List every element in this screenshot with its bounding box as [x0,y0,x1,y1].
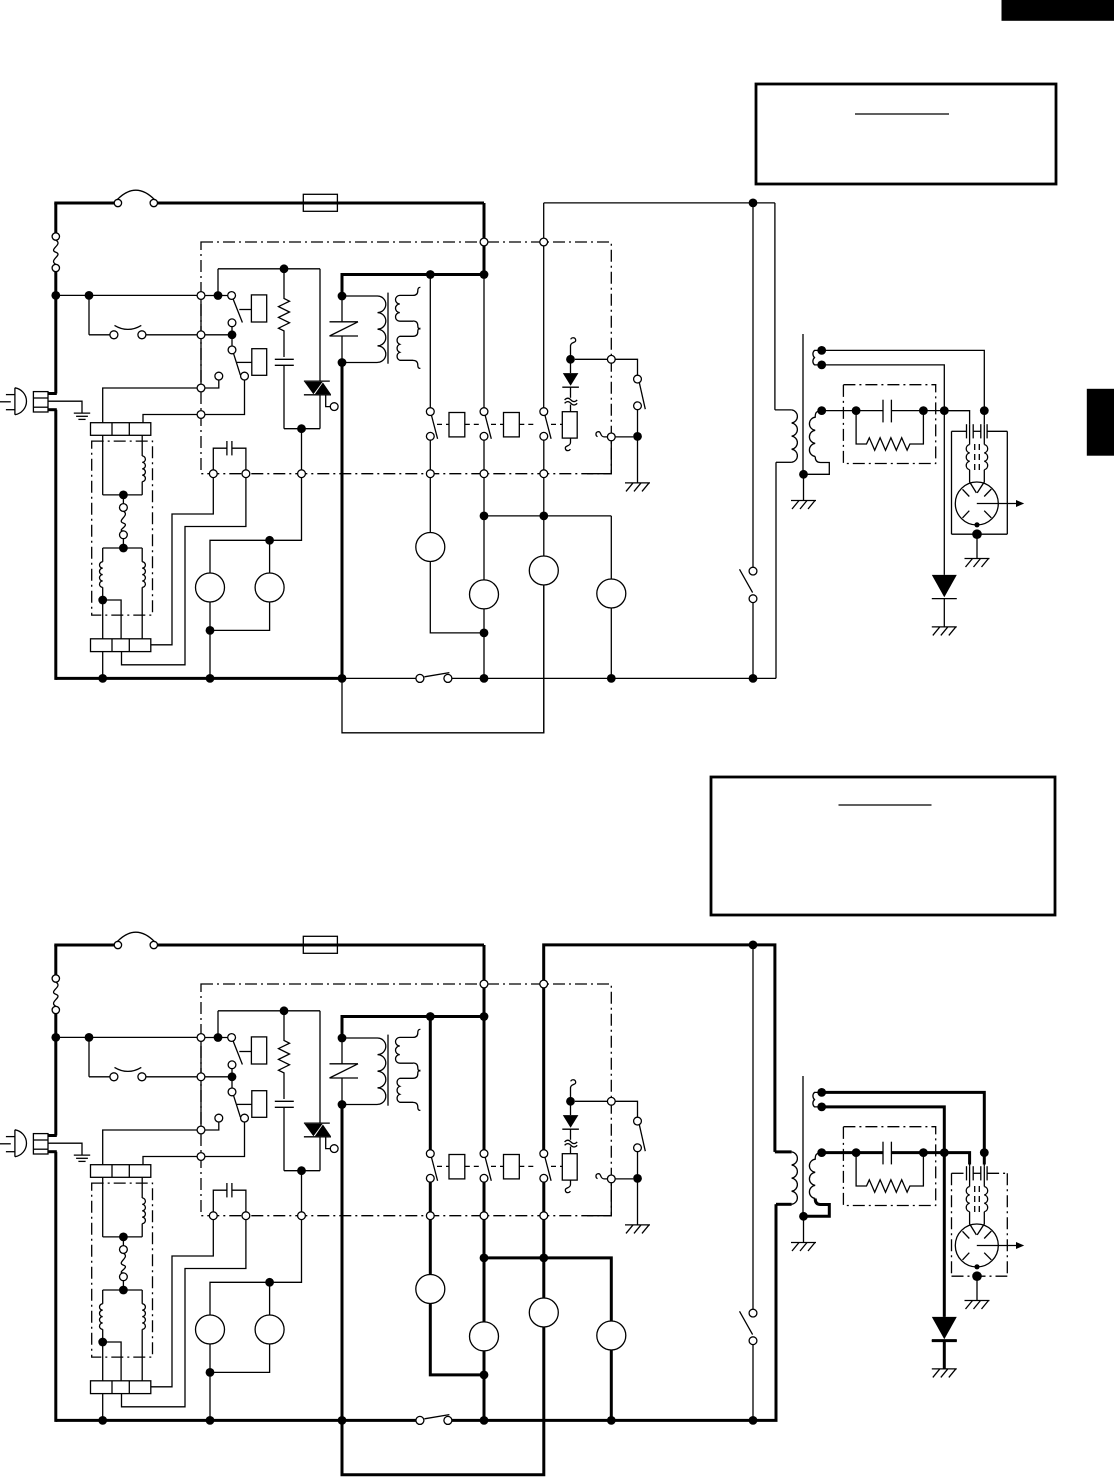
wire triac out [319,395,321,429]
resistor box R2 (schematic 2) [570,1147,572,1154]
wire buzzer switch down (schematic 2) [637,1152,639,1179]
bold column 1 (schematic 2) [429,1017,432,1150]
ground diode [932,626,957,628]
wire LVT primary bottom lead [342,362,378,364]
wire col2 to motor 2 [483,478,485,580]
relay contact S1 (schematic 2) [426,1150,434,1158]
node relay bus 1 [426,270,435,279]
HV capacitor C2 [882,400,884,423]
wire col3 corner [543,203,545,238]
magnetron output arrow (schematic 2) [977,1245,1017,1247]
relay coil box RYA (schematic 2) [449,1155,465,1179]
triac gate [326,395,331,407]
wire lamp bottoms [209,602,211,630]
wire block to neutral rail (schematic 2) [102,1394,104,1421]
wire plug to live rail (schematic 2) [48,1134,57,1137]
node branch (schematic 2) [85,1033,94,1042]
HVT primary top elbow [775,409,792,411]
node magnetron right lead [980,406,989,415]
wire magnetron ground (schematic 2) [976,1276,978,1300]
relay RY2 contact NO [241,372,249,380]
node motor bus 3 (schematic 2) [539,1254,548,1263]
control pin LED (schematic 2) [607,1097,615,1105]
relay coil box RYA [449,413,465,437]
capacitor C1 (schematic 2) [275,1100,294,1102]
loop wire below (schematic 2) [342,1327,544,1475]
node filament 1 [817,346,826,355]
control pin thermal [197,331,205,339]
wire to magnetron left (schematic 2) [944,1153,969,1167]
membrane key capacitor [213,448,227,470]
wire filter to control pin 2 (schematic 2) [143,1157,205,1165]
node lamp 2 tap (schematic 2) [265,1278,274,1287]
thermal cutout TCO (schematic 2) [52,975,59,982]
terminal block lower (schematic 2) [91,1381,151,1394]
magnetron filament feedthrough [966,424,968,438]
HV diode D2 (schematic 2) [932,1317,957,1339]
buzzer hook (schematic 2) [596,1174,607,1179]
rail segment right (schematic 2) [452,1419,776,1421]
wire to triac (schematic 2) [319,1011,321,1123]
LED D1 (schematic 2) [570,1101,572,1115]
chassis ground plug (schematic 2) [74,1154,90,1156]
wire relay contact S1 lower (schematic 2) [429,1182,431,1212]
bold loop (schematic 2) [342,1327,544,1475]
filter link lower (schematic 2) [122,1281,124,1290]
wire buzzer switch down [637,410,639,437]
control pin lamp [298,470,306,478]
magnetron output arrow [977,503,1017,505]
control pin feed [480,238,488,246]
thermal fuse Z [341,296,343,322]
rail segment to monitor switch (schematic 2) [342,1419,416,1421]
HV capacitor boundary (dash-dot) [843,385,935,464]
control pin key A [209,470,217,478]
triac gate (schematic 2) [326,1137,331,1149]
control box left edge solid segments (schematic 2) [200,1041,202,1073]
terminal block upper (schematic 2) [91,1165,151,1178]
wire lamp feed (schematic 2) [210,1220,302,1315]
LVT secondary 1 (schematic 2) [396,1037,414,1063]
wire HV feed top [544,202,775,204]
relay RY1 blade (schematic 2) [233,1041,242,1064]
node lamp 2 tap [265,536,274,545]
oven lamp L2 [255,573,284,602]
relay RY1 blade [233,299,242,322]
node LVT primary top (schematic 2) [338,1034,347,1043]
node motor bus 3 [539,512,548,521]
bold HV line (schematic 2) [822,1151,883,1154]
filter break contacts (schematic 2) [120,1246,128,1254]
filter choke coil 3 [141,548,143,562]
bold diode bar and ground stub (schematic 2) [932,1339,957,1342]
wire motor 2 out [483,609,485,679]
LVT secondary 2 [397,336,413,360]
LVT core (schematic 2) [387,1035,389,1106]
bleed resistor R3 [856,411,923,451]
HVT secondary bottom elbow (schematic 2) [804,1199,830,1217]
wire to triac [319,269,321,381]
turntable motor TTM [470,580,499,609]
magnetron anode vanes (schematic 2) [963,1231,970,1238]
triac Q1 [304,380,330,382]
ground magnetron [965,558,990,560]
node filter mid 1 (schematic 2) [119,1233,128,1242]
magnetron case box [952,430,967,432]
wire HV line right (schematic 2) [891,1152,969,1154]
wire filament line 2 (schematic 2) [822,1107,945,1153]
node HV switch tap [749,199,758,208]
node B (schematic 2) [228,1072,237,1081]
wire filter to control pin 2 [143,415,205,423]
filter link upper (schematic 2) [122,1237,124,1246]
node HV line [817,406,826,415]
wire control input A [205,295,228,297]
wire filament line 1 (schematic 2) [822,1092,985,1152]
node cap right [919,406,928,415]
wire filament line 2 [822,365,945,411]
wire left rail upper [54,203,57,233]
relay RY1 contact NO (schematic 2) [228,1061,236,1069]
filter break contacts [120,504,128,512]
filter upper left lead (schematic 2) [102,1177,104,1237]
filter upper bottom wire [103,494,143,496]
wire NC to pin (schematic 2) [205,1122,219,1130]
filter choke coil 3 (schematic 2) [141,1290,143,1304]
node lamp return [206,626,215,635]
wire control line A (schematic 2) [151,1220,214,1387]
note box 1 underline [855,113,949,115]
node HVT ground (schematic 2) [799,1212,808,1221]
control pin col2 [480,470,488,478]
fuse holder box (schematic 2) [303,936,337,953]
ground magnetron (schematic 2) [965,1300,990,1302]
relay RY1 contact NO [228,319,236,327]
wire col3 corner (schematic 2) [543,945,545,980]
wire HVT primary feed (schematic 2) [774,945,776,1152]
wire triac bottom bus [284,428,320,430]
magnetron filament leads (schematic 2) [969,1166,971,1186]
wire lamp feed down (schematic 2) [301,1171,303,1212]
node LVT primary bottom [338,358,347,367]
node filter mid 1 [119,491,128,500]
monitor switch (schematic 2) [416,1416,424,1424]
node HV diode junction [940,406,949,415]
filter choke coil 1 [141,435,143,456]
wire col1 to motor 1 (schematic 2) [429,1220,431,1275]
wire LVT bottom to neutral rail (schematic 2) [341,1105,344,1422]
control pin HV feed (schematic 2) [540,980,548,988]
node buzzer [633,432,642,441]
wire filament line 1 [822,350,985,410]
node filament 2 [817,361,826,370]
wire power relay column 1 upper [429,275,431,408]
wire control line A [151,478,214,645]
wire LVT primary top lead [342,295,378,297]
wire LVT primary bottom lead (schematic 2) [342,1104,378,1106]
node LED [566,355,575,364]
wire HVT primary return [775,462,777,678]
control pin filter 2 (schematic 2) [197,1153,205,1161]
wire NO to pin (schematic 2) [205,1122,245,1157]
wire HVT ground [803,474,805,500]
filter link upper [122,495,124,504]
node lamp feed (schematic 2) [297,1166,306,1175]
LED branch bottom hook (schematic 2) [565,1180,570,1193]
monitor switch [416,674,424,682]
relay contact S3 [540,408,548,416]
control pin live (schematic 2) [197,1034,205,1042]
control pin col3 [540,470,548,478]
wire control input B [205,334,228,336]
wire col2 to motor 2 (schematic 2) [483,1220,485,1322]
control pin live [197,292,205,300]
wire lamp 2 top (schematic 2) [269,1282,271,1315]
relay RY2 contact NO (schematic 2) [241,1114,249,1122]
wire C1 down [283,365,285,428]
note box 2 underline [839,804,932,806]
node HVT ground [799,470,808,479]
node filter out [98,596,107,605]
ground HVT [791,500,816,502]
wire top feed left (schematic 2) [54,944,114,947]
node rail HV switch [749,674,758,683]
relay RY2 coil box [252,349,267,376]
relay contact RY1 common (schematic 2) [228,1034,236,1042]
node LED (schematic 2) [566,1097,575,1106]
HVT core [802,334,804,477]
magnetron filament chokes (schematic 2) [966,1187,969,1212]
magnetron filament chokes [966,445,969,470]
noise filter boundary (dash-dot) (schematic 2) [92,1183,153,1357]
HV relay switch [749,567,757,575]
relay contact S1 [426,408,434,416]
wire lamp 2 top [269,540,271,573]
node A (schematic 2) [214,1033,223,1042]
node relay bus 2 [480,270,489,279]
fuse F1 (schematic 2) [114,941,121,948]
LED branch bottom hook [565,438,570,451]
wire left rail mid (schematic 2) [54,1014,57,1136]
wire live to control (schematic 2) [56,1036,197,1038]
wire HV switch lower [752,603,754,679]
schematic 2 (cooking condition) [0,932,1024,1475]
magnetron cathode leads [970,470,977,493]
HVT secondary winding [809,411,821,457]
LVT secondary 1 [395,295,413,321]
wire down to control unit pin [483,203,486,238]
wire magnetron right lead [983,411,985,425]
wire motor 1 out [430,562,484,633]
wire HVT primary feed [774,203,776,410]
chassis ground plug [74,412,90,414]
relay RY2 contact NC (schematic 2) [215,1114,223,1122]
HVT primary bottom elbow [776,461,792,463]
LED branch top hook [571,338,576,356]
wire control pin to relay bus (schematic 2) [342,988,484,1038]
wire HV line right [891,410,969,412]
wire buzzer to ground [637,436,639,483]
HVT primary winding [792,410,798,462]
fuse holder box [303,194,337,211]
wire top bus to triac [218,268,320,270]
filter choke coil 1 (schematic 2) [141,1177,143,1198]
wire lamp return [209,630,211,678]
node live tap [51,291,60,300]
note box 1 [756,84,1056,184]
wire C1 down (schematic 2) [283,1107,285,1170]
relay RY2 blade (schematic 2) [234,1096,241,1118]
HVT primary winding (schematic 2) [792,1152,798,1204]
bold motor bus (schematic 2) [484,1258,611,1321]
node relay bus 1 (schematic 2) [426,1012,435,1021]
wire motor 1 out (schematic 2) [430,1304,484,1375]
control pin col1 (schematic 2) [426,1212,434,1220]
node filament 1 (schematic 2) [817,1088,826,1097]
HV diode D2 [932,575,957,597]
wire plug to neutral rail [48,408,57,411]
thermal switch contacts (schematic 2) [110,1073,118,1081]
oven lamp L1 (schematic 2) [196,1315,225,1344]
node lamp return (schematic 2) [206,1368,215,1377]
filter choke coil 2 [102,548,104,562]
wire motor bus corner to motor 4 [610,516,612,579]
control pin col2 (schematic 2) [480,1212,488,1220]
plug connector block (schematic 2) [33,1134,48,1154]
LVT core [387,293,389,364]
wire LVT bottom to neutral rail [341,363,344,680]
wire thermal to control (schematic 2) [146,1076,197,1078]
node HV diode junction (schematic 2) [940,1148,949,1157]
wire lamp feed [210,478,302,573]
AC power cord plug [15,388,27,415]
wire relay contact S3 lower (schematic 2) [543,1182,545,1212]
wire plug to neutral rail (schematic 2) [48,1150,57,1153]
wire block to neutral rail [102,652,104,679]
wire LVT primary top lead (schematic 2) [342,1037,378,1039]
wire buzzer link (schematic 2) [615,1178,633,1180]
relay contact RY1 common [228,292,236,300]
node cap left (schematic 2) [852,1148,861,1157]
wire lamp return (schematic 2) [209,1372,211,1420]
ground diode (schematic 2) [932,1368,957,1370]
wire motor bus (schematic 2) [484,1257,611,1259]
wire thermal to control [146,334,197,336]
page corner black tab [1002,0,1114,21]
node rail LVT [338,674,347,683]
relay contact S3 (schematic 2) [540,1150,548,1158]
HV relay switch (schematic 2) [749,1309,757,1317]
wire contact link (schematic 2) [231,1069,233,1088]
HVT primary bottom elbow (schematic 2) [776,1203,792,1205]
wire plug to live rail [48,392,57,395]
filter link lower [122,539,124,548]
node rail motor4 (schematic 2) [607,1416,616,1425]
ground buzzer [625,482,650,484]
control pin key B [242,470,250,478]
stirrer motor SM (schematic 2) [529,1298,558,1327]
wire col3 to motor 3 (schematic 2) [543,1220,545,1298]
wire relay contact S2 lower [483,440,485,470]
neutral rail bold (schematic 2) [56,1419,344,1422]
node motor 1+2 join [480,629,489,638]
control pin filter 2 [197,411,205,419]
control pin buzzer (schematic 2) [607,1175,615,1183]
node HV switch tap (schematic 2) [749,941,758,950]
plug connector block [33,392,48,412]
HV capacitor C2 (schematic 2) [882,1142,884,1165]
LED D1 [570,359,572,373]
filter lower top wire (schematic 2) [103,1289,143,1291]
wire left rail lower (schematic 2) [54,1152,57,1422]
buzzer switch (schematic 2) [634,1117,642,1125]
wire magnetron right lead (schematic 2) [983,1153,985,1167]
wire control pin to relay bus [342,246,484,296]
rail segment to monitor switch [342,677,416,679]
wire plug earth lead [48,401,82,412]
wire motor 2 out (schematic 2) [483,1351,485,1421]
node rail filter (schematic 2) [98,1416,107,1425]
control pin feed (schematic 2) [480,980,488,988]
control box left edge solid segments [200,299,202,331]
LVT primary winding (schematic 2) [378,1038,386,1104]
wire to magnetron left [944,411,969,425]
noise filter boundary (dash-dot) [92,441,153,615]
wire control pin to buzzer switch (schematic 2) [615,1101,637,1117]
thermal cutout TCO [52,233,59,240]
node LVT primary bottom (schematic 2) [338,1100,347,1109]
wire control line B [122,478,246,665]
control box right edge solid corner [587,441,611,474]
wire control input A (schematic 2) [205,1037,228,1039]
control pin lamp (schematic 2) [298,1212,306,1220]
node filter mid 2 [119,544,128,553]
ground buzzer (schematic 2) [625,1224,650,1226]
wire buzzer link [615,436,633,438]
control pin filter 1 (schematic 2) [197,1126,205,1134]
wire down to control unit pin (schematic 2) [483,945,486,980]
note box 2 [711,777,1055,915]
wire lamp feed down [301,429,303,470]
node live tap (schematic 2) [51,1033,60,1042]
filter lower top wire [103,547,143,549]
wire HV switch upper [752,203,754,567]
wire live to control [56,294,197,296]
wire triac out (schematic 2) [319,1137,321,1171]
ground HVT (schematic 2) [791,1242,816,1244]
membrane key capacitor (schematic 2) [213,1190,227,1212]
wire NC to pin [205,380,219,388]
node branch [85,291,94,300]
wire top feed main [158,202,485,205]
control pin HV feed [540,238,548,246]
wire buzzer to ground (schematic 2) [637,1178,639,1225]
capacitor C1 [275,358,294,360]
magnetron filament leads [969,424,971,444]
wire NO to pin [205,380,245,415]
control pin col1 [426,470,434,478]
wire motor 4 out (schematic 2) [610,1350,612,1420]
oven lamp L2 (schematic 2) [255,1315,284,1344]
HV capacitor boundary (dash-dot) (schematic 2) [843,1127,935,1206]
control pin col3 (schematic 2) [540,1212,548,1220]
wire relay contact S3 lower [543,440,545,470]
wire contact link [231,327,233,346]
LED wave marks (schematic 2) [565,1140,578,1143]
bold rail segments (schematic 2) [342,1419,416,1422]
filter out wires [102,600,104,639]
wire to flame sensor [89,334,110,336]
